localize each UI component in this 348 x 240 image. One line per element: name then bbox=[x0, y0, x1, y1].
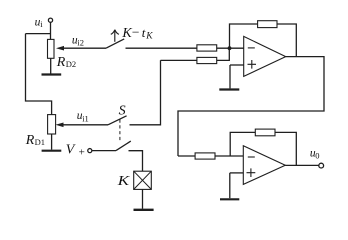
svg-text:D2: D2 bbox=[66, 59, 76, 69]
svg-text:S: S bbox=[119, 104, 126, 119]
svg-text:i1: i1 bbox=[82, 113, 89, 123]
svg-text:+: + bbox=[79, 146, 85, 158]
svg-text:t: t bbox=[142, 25, 146, 40]
svg-text:−: − bbox=[132, 24, 140, 39]
svg-text:V: V bbox=[66, 142, 76, 157]
svg-text:R: R bbox=[56, 55, 66, 70]
svg-text:0: 0 bbox=[315, 151, 319, 161]
svg-text:D1: D1 bbox=[35, 137, 45, 147]
svg-text:K: K bbox=[117, 174, 130, 189]
svg-text:i2: i2 bbox=[77, 37, 84, 47]
svg-text:R: R bbox=[25, 133, 35, 148]
svg-text:K: K bbox=[145, 32, 153, 42]
